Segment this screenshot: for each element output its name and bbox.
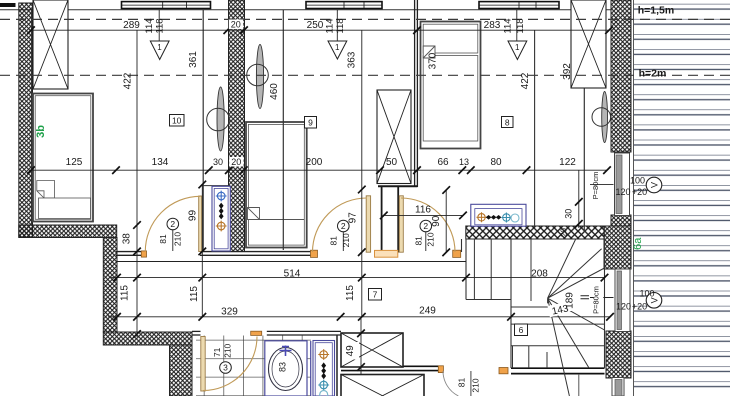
- radiator room 9: [247, 45, 269, 109]
- svg-text:66: 66: [437, 157, 449, 168]
- dim text 143 (slanted): [548, 302, 570, 317]
- svg-text:P=80cm: P=80cm: [591, 286, 600, 314]
- vertical dim line x137 (422/38): [133, 30, 141, 338]
- shaft X-box 2 lower: [341, 375, 424, 396]
- radiator room 8 right: [592, 92, 611, 143]
- exterior wall right between windows: [611, 215, 631, 226]
- svg-text:+20: +20: [632, 187, 647, 197]
- corridor 514 dimension line: [110, 262, 470, 282]
- window W3 top (room 8): [479, 2, 559, 9]
- svg-text:h=1,5m: h=1,5m: [638, 5, 674, 17]
- door 8 stop block (orange): [453, 250, 461, 257]
- plumbing unit U3 (bathroom): [313, 341, 335, 396]
- niche top line left of unit U1: [202, 185, 230, 187]
- svg-text:289: 289: [123, 20, 140, 31]
- exterior wall band 2: [103, 332, 192, 345]
- stair hall left edge below landing: [510, 239, 512, 368]
- svg-text:200: 200: [306, 157, 323, 168]
- vent symbol circle V upper: [646, 177, 662, 193]
- top wall inner edge line: [0, 9, 611, 11]
- svg-text:422: 422: [123, 72, 134, 89]
- decking area right (terrace planks): [634, 0, 730, 396]
- door 9 stop block (orange): [311, 250, 318, 257]
- bathroom door swing arc: [203, 337, 257, 391]
- exterior wall step strip 1: [103, 238, 117, 333]
- stair landing bottom edge: [466, 299, 511, 301]
- window spec leader W1: [158, 10, 160, 41]
- svg-text:114: 114: [503, 18, 514, 33]
- svg-text:114: 114: [144, 18, 155, 33]
- bathroom door stop block (orange): [251, 331, 262, 335]
- door label circle 2 (door 9): [338, 220, 350, 251]
- left wall inner edge: [31, 10, 33, 225]
- stair 208 dim line: [466, 274, 608, 282]
- bottom wall below stairs: [511, 368, 605, 373]
- exterior wall step strip 2: [170, 345, 193, 396]
- stair lower flight treads: [511, 324, 605, 368]
- window W1 top (room 10): [122, 2, 211, 9]
- svg-text:118: 118: [515, 18, 526, 33]
- room label box 6: [515, 324, 528, 336]
- stair hall top wall band (hatched): [466, 226, 605, 239]
- line right of room 8 (stair void edge): [534, 30, 536, 226]
- wall stub between doors 9 and 8: [375, 187, 399, 257]
- svg-text:114: 114: [325, 18, 336, 33]
- room label box 10: [170, 115, 185, 127]
- wardrobe X-box top-left: [33, 0, 68, 89]
- svg-text:118: 118: [155, 18, 166, 33]
- svg-text:9: 9: [308, 118, 313, 128]
- middle dimension chain line: [27, 166, 611, 174]
- door label circle 3 (bathroom): [220, 362, 232, 374]
- exterior wall right upper (hatched): [611, 0, 631, 152]
- lower door swing arc: [443, 371, 458, 396]
- washbasin counter (bathroom): [265, 341, 311, 396]
- bottom wall left of lower door: [341, 366, 439, 370]
- svg-text:81: 81: [329, 236, 339, 246]
- svg-text:210: 210: [470, 378, 480, 392]
- svg-text:422: 422: [520, 72, 531, 89]
- wardrobe X-box room 8: [377, 90, 411, 184]
- svg-text:283: 283: [484, 20, 501, 31]
- door 10 leaf: [199, 196, 202, 252]
- svg-text:210: 210: [223, 343, 233, 357]
- exterior wall band below room 3b: [19, 225, 117, 238]
- svg-text:115: 115: [189, 286, 200, 302]
- svg-text:3: 3: [223, 363, 228, 373]
- svg-text:115: 115: [120, 285, 131, 301]
- bathroom top wall left piece: [192, 331, 201, 335]
- door label circle 2 (door 8): [420, 220, 432, 251]
- svg-text:V: V: [650, 182, 660, 188]
- window marker triangle 1 (W3): [508, 41, 527, 60]
- svg-text:210: 210: [172, 232, 182, 246]
- svg-text:210: 210: [426, 232, 436, 246]
- svg-text:6: 6: [519, 325, 524, 335]
- vertical dim line x202 (99/115): [199, 181, 207, 321]
- svg-text:100: 100: [639, 289, 654, 299]
- window right wall lower: [615, 269, 630, 332]
- svg-text:99: 99: [188, 210, 199, 222]
- svg-text:1: 1: [157, 43, 162, 52]
- svg-text:118: 118: [335, 18, 346, 33]
- svg-text:81: 81: [413, 236, 423, 246]
- walkline equals mark: [581, 296, 590, 299]
- lower door hinge block (orange): [438, 366, 443, 373]
- partition line right of room 10 nook: [202, 10, 204, 252]
- corridor top wall segment A: [116, 252, 145, 256]
- svg-text:460: 460: [269, 83, 280, 100]
- rotated dim 49: [345, 342, 359, 360]
- svg-text:83: 83: [278, 362, 288, 372]
- svg-text:20: 20: [231, 157, 241, 167]
- partition line left of room 9: [282, 10, 284, 250]
- bottom dimension chain line: [108, 313, 614, 321]
- svg-text:90: 90: [431, 215, 442, 227]
- leader line window spec right upper: [590, 184, 614, 186]
- vertical dim line x446 (90): [442, 186, 450, 256]
- svg-text:30: 30: [213, 157, 223, 167]
- door 8 dim line 116: [380, 212, 467, 220]
- window right wall upper: [615, 153, 630, 216]
- top dimension chain line: [27, 26, 613, 34]
- door 9 leaf: [366, 196, 370, 252]
- svg-text:81: 81: [456, 378, 466, 388]
- lower door stop block (orange): [499, 368, 508, 374]
- svg-text:49: 49: [345, 345, 356, 357]
- svg-text:13: 13: [459, 157, 469, 167]
- door 9 swing arc: [313, 198, 367, 252]
- svg-text:363: 363: [346, 51, 357, 68]
- svg-text:514: 514: [284, 268, 301, 279]
- lower door leaf: [470, 371, 472, 396]
- rotated label P=80cm stairs: [591, 285, 603, 315]
- svg-text:20: 20: [231, 20, 241, 30]
- svg-text:7: 7: [373, 290, 378, 300]
- bathroom right edge wall line: [336, 335, 338, 396]
- bathroom floor tile grid: [196, 336, 311, 396]
- height line h=1,5m (dash): [0, 18, 730, 20]
- right 30 dim line: [575, 170, 583, 228]
- shaft X-box 1 near stairs: [341, 333, 403, 367]
- svg-text:329: 329: [221, 306, 238, 317]
- door 10 swing arc: [145, 196, 200, 251]
- svg-text:115: 115: [345, 285, 356, 301]
- window spec leader W3: [516, 10, 518, 41]
- bed room 3b: [33, 94, 93, 222]
- door 8 leaf: [399, 196, 403, 252]
- svg-text:125: 125: [66, 157, 83, 168]
- dim text 20 top: [229, 20, 243, 30]
- wall between room 9 and room 8: [415, 0, 418, 187]
- svg-text:71: 71: [212, 347, 222, 357]
- svg-text:8: 8: [505, 117, 510, 127]
- svg-text:100: 100: [630, 176, 645, 186]
- wardrobe bottom wall line room 8: [378, 185, 418, 187]
- leader line window spec right lower: [590, 297, 614, 299]
- exterior wall right bump at stair: [604, 226, 631, 269]
- room 8 right wall line: [583, 10, 585, 232]
- svg-text:38: 38: [122, 233, 133, 245]
- svg-text:370: 370: [427, 52, 438, 69]
- svg-text:134: 134: [152, 157, 169, 168]
- door 8 swing arc: [401, 198, 455, 252]
- svg-text:97: 97: [347, 212, 358, 224]
- plumbing unit U1 (corridor niche): [212, 186, 230, 251]
- door label circle 2 (door 10): [167, 218, 179, 251]
- svg-text:20: 20: [559, 228, 568, 237]
- wardrobe X-box top-right: [571, 0, 606, 88]
- svg-text:3b: 3b: [35, 125, 47, 138]
- radiator room 10 left: [207, 87, 230, 151]
- plumbing unit U2 (stair radiator box): [471, 204, 526, 226]
- svg-text:+20: +20: [632, 302, 647, 312]
- bathroom top wall right piece: [267, 331, 341, 335]
- svg-text:80: 80: [490, 157, 502, 168]
- svg-text:116: 116: [415, 205, 431, 216]
- svg-text:81: 81: [158, 234, 168, 244]
- stair winder fan lines: [548, 239, 605, 396]
- room label box 9: [305, 117, 317, 129]
- vertical dim line x361 (49): [357, 317, 365, 374]
- corridor east nib at stair: [461, 239, 463, 252]
- vent symbol circle V lower: [646, 293, 662, 309]
- svg-text:361: 361: [188, 51, 199, 68]
- svg-text:1: 1: [515, 43, 520, 52]
- svg-text:120: 120: [616, 302, 631, 312]
- window marker triangle 1 (W1): [150, 41, 169, 60]
- svg-text:h=2m: h=2m: [639, 68, 667, 80]
- svg-text:6a: 6a: [632, 237, 644, 250]
- stair landing step edge 2: [511, 306, 549, 308]
- svg-text:210: 210: [341, 233, 351, 247]
- dim text 20 mid: [229, 157, 243, 167]
- room label box 8: [502, 117, 514, 128]
- svg-text:120: 120: [615, 187, 630, 197]
- svg-text:2: 2: [341, 221, 346, 231]
- stair right edge: [604, 239, 606, 368]
- svg-text:122: 122: [559, 157, 576, 168]
- line below stair wall to lower floor: [578, 374, 580, 396]
- wall top-left black bar: [0, 3, 16, 7]
- stair landing left edge: [465, 239, 467, 300]
- room label box 7: [369, 289, 382, 301]
- exterior wall left (hatched): [19, 3, 33, 237]
- exterior wall right lower: [606, 331, 631, 378]
- bed room 9: [246, 122, 307, 248]
- svg-text:P=80cm: P=80cm: [591, 172, 600, 200]
- window W2 top (room 9): [306, 2, 382, 9]
- window marker triangle 1 (W2): [328, 41, 347, 59]
- svg-text:208: 208: [531, 268, 548, 279]
- svg-text:250: 250: [307, 20, 324, 31]
- door 10 stop block (orange): [141, 251, 146, 257]
- rotated dim 189: [565, 290, 579, 311]
- window right wall bottom: [612, 378, 624, 396]
- interior hatched wall between room 10 and room 9: [229, 0, 245, 252]
- stair treads upper flight: [474, 239, 531, 301]
- svg-text:10: 10: [172, 116, 182, 126]
- svg-text:30: 30: [563, 209, 573, 219]
- height line h=2m (dash): [0, 74, 730, 76]
- bed room 8: [421, 22, 481, 149]
- vertical dim line x361.8 (363/97/115): [358, 30, 366, 320]
- svg-text:249: 249: [419, 305, 436, 316]
- window spec leader W2: [336, 10, 338, 41]
- svg-text:2: 2: [423, 221, 428, 231]
- corridor top wall segment B: [200, 252, 311, 256]
- svg-text:2: 2: [170, 219, 175, 229]
- bathroom door leaf: [201, 337, 205, 392]
- svg-text:392: 392: [562, 63, 573, 80]
- svg-text:1: 1: [335, 43, 340, 52]
- svg-text:50: 50: [386, 157, 398, 168]
